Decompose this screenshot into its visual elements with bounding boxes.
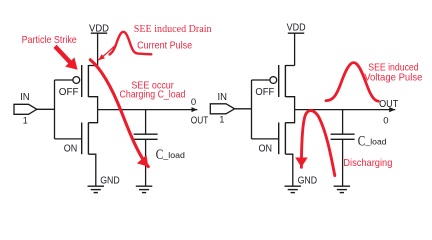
capacitor C_load (right) [331, 134, 355, 139]
wire VDD to PMOS source (left) [97, 33, 99, 65]
svg-text:_load: _load [365, 137, 387, 147]
svg-text:GND: GND [100, 176, 120, 187]
SEE induced voltage pulse waveform (right bell) [326, 63, 378, 102]
NMOS source lead (right) [285, 154, 292, 186]
PMOS transistor OFF (left): gate bar [81, 65, 83, 97]
PMOS bubble (right) [270, 77, 277, 84]
wire IN pin to gate rail (left) [37, 108, 55, 110]
svg-text:GND: GND [298, 176, 318, 187]
svg-text:ON: ON [64, 143, 78, 154]
svg-text:IN: IN [20, 92, 30, 103]
svg-text:SEE induced Drain: SEE induced Drain [134, 23, 212, 35]
wire C_load to ground (left) [145, 139, 147, 186]
ground symbol under C_load (right) [334, 186, 351, 192]
NMOS gate lead (right) [252, 138, 279, 140]
svg-text:C: C [358, 134, 366, 150]
wire VDD to PMOS source (right) [294, 33, 296, 65]
PMOS transistor OFF (right): gate bar [278, 65, 280, 97]
wire output to C_load (right) [342, 110, 344, 135]
svg-text:IN: IN [218, 92, 228, 103]
svg-text:Voltage Pulse: Voltage Pulse [364, 73, 422, 84]
NMOS channel bar (right) [284, 123, 286, 155]
PMOS gate lead (right) [252, 79, 270, 81]
NMOS drain lead (left) [88, 110, 97, 123]
svg-text:0: 0 [383, 116, 388, 127]
discharging curved arrow [301, 111, 334, 176]
PMOS gate lead (left) [55, 79, 73, 81]
PMOS channel bar (right) [284, 65, 286, 97]
svg-text:1: 1 [23, 115, 28, 126]
PMOS channel bar (left) [87, 65, 89, 97]
charging current curved arrow [90, 60, 148, 167]
NMOS drain lead (right) [285, 110, 294, 123]
svg-text:ON: ON [259, 143, 273, 154]
input pin IN (right) [210, 104, 234, 114]
svg-text:Particle Strike: Particle Strike [22, 35, 77, 46]
NMOS gate lead (left) [55, 138, 82, 140]
capacitor C_load (left) [134, 134, 158, 139]
svg-text:Discharging: Discharging [343, 158, 392, 169]
wire C_load to ground (right) [342, 139, 344, 186]
svg-text:OUT: OUT [379, 99, 398, 110]
svg-text:C: C [156, 147, 164, 163]
arrow from pulse to PMOS drain [98, 46, 115, 60]
svg-text:1: 1 [219, 114, 224, 125]
PMOS bubble (left) [73, 77, 80, 84]
SEE induced drain current pulse waveform (left bell) [110, 32, 152, 55]
svg-text:OUT: OUT [191, 115, 209, 126]
svg-text:OFF: OFF [59, 87, 79, 98]
output wire (left) [98, 109, 198, 111]
svg-text:VDD: VDD [287, 23, 306, 34]
NMOS transistor ON (left): gate bar [81, 123, 83, 155]
NMOS source lead (left) [88, 154, 95, 186]
ground symbol under NMOS (right) [285, 186, 302, 192]
gate rail (left) [54, 80, 56, 139]
PMOS source lead (left) [88, 65, 97, 67]
PMOS source lead (right) [285, 65, 294, 67]
wire IN pin to gate rail (right) [235, 108, 252, 110]
svg-text:OFF: OFF [255, 87, 274, 98]
VDD supply bar (right) [288, 32, 304, 34]
output wire (right) [295, 109, 396, 111]
input pin IN (left) [14, 104, 37, 114]
VDD supply bar (left) [91, 32, 107, 34]
svg-text:_load: _load [162, 150, 185, 160]
NMOS transistor ON (right): gate bar [278, 123, 280, 155]
particle strike block arrow [53, 45, 77, 70]
PMOS drain lead (left) [88, 97, 97, 110]
NMOS channel bar (left) [87, 123, 89, 155]
svg-text:Current Pulse: Current Pulse [137, 40, 192, 51]
gate rail (right) [251, 80, 253, 139]
ground symbol under C_load (left) [136, 186, 153, 192]
PMOS drain lead (right) [285, 97, 294, 110]
svg-text:Charging C_load: Charging C_load [120, 90, 186, 101]
ground symbol under NMOS (left) [88, 186, 105, 192]
svg-text:0: 0 [191, 97, 196, 108]
wire output to C_load (left) [145, 110, 147, 135]
